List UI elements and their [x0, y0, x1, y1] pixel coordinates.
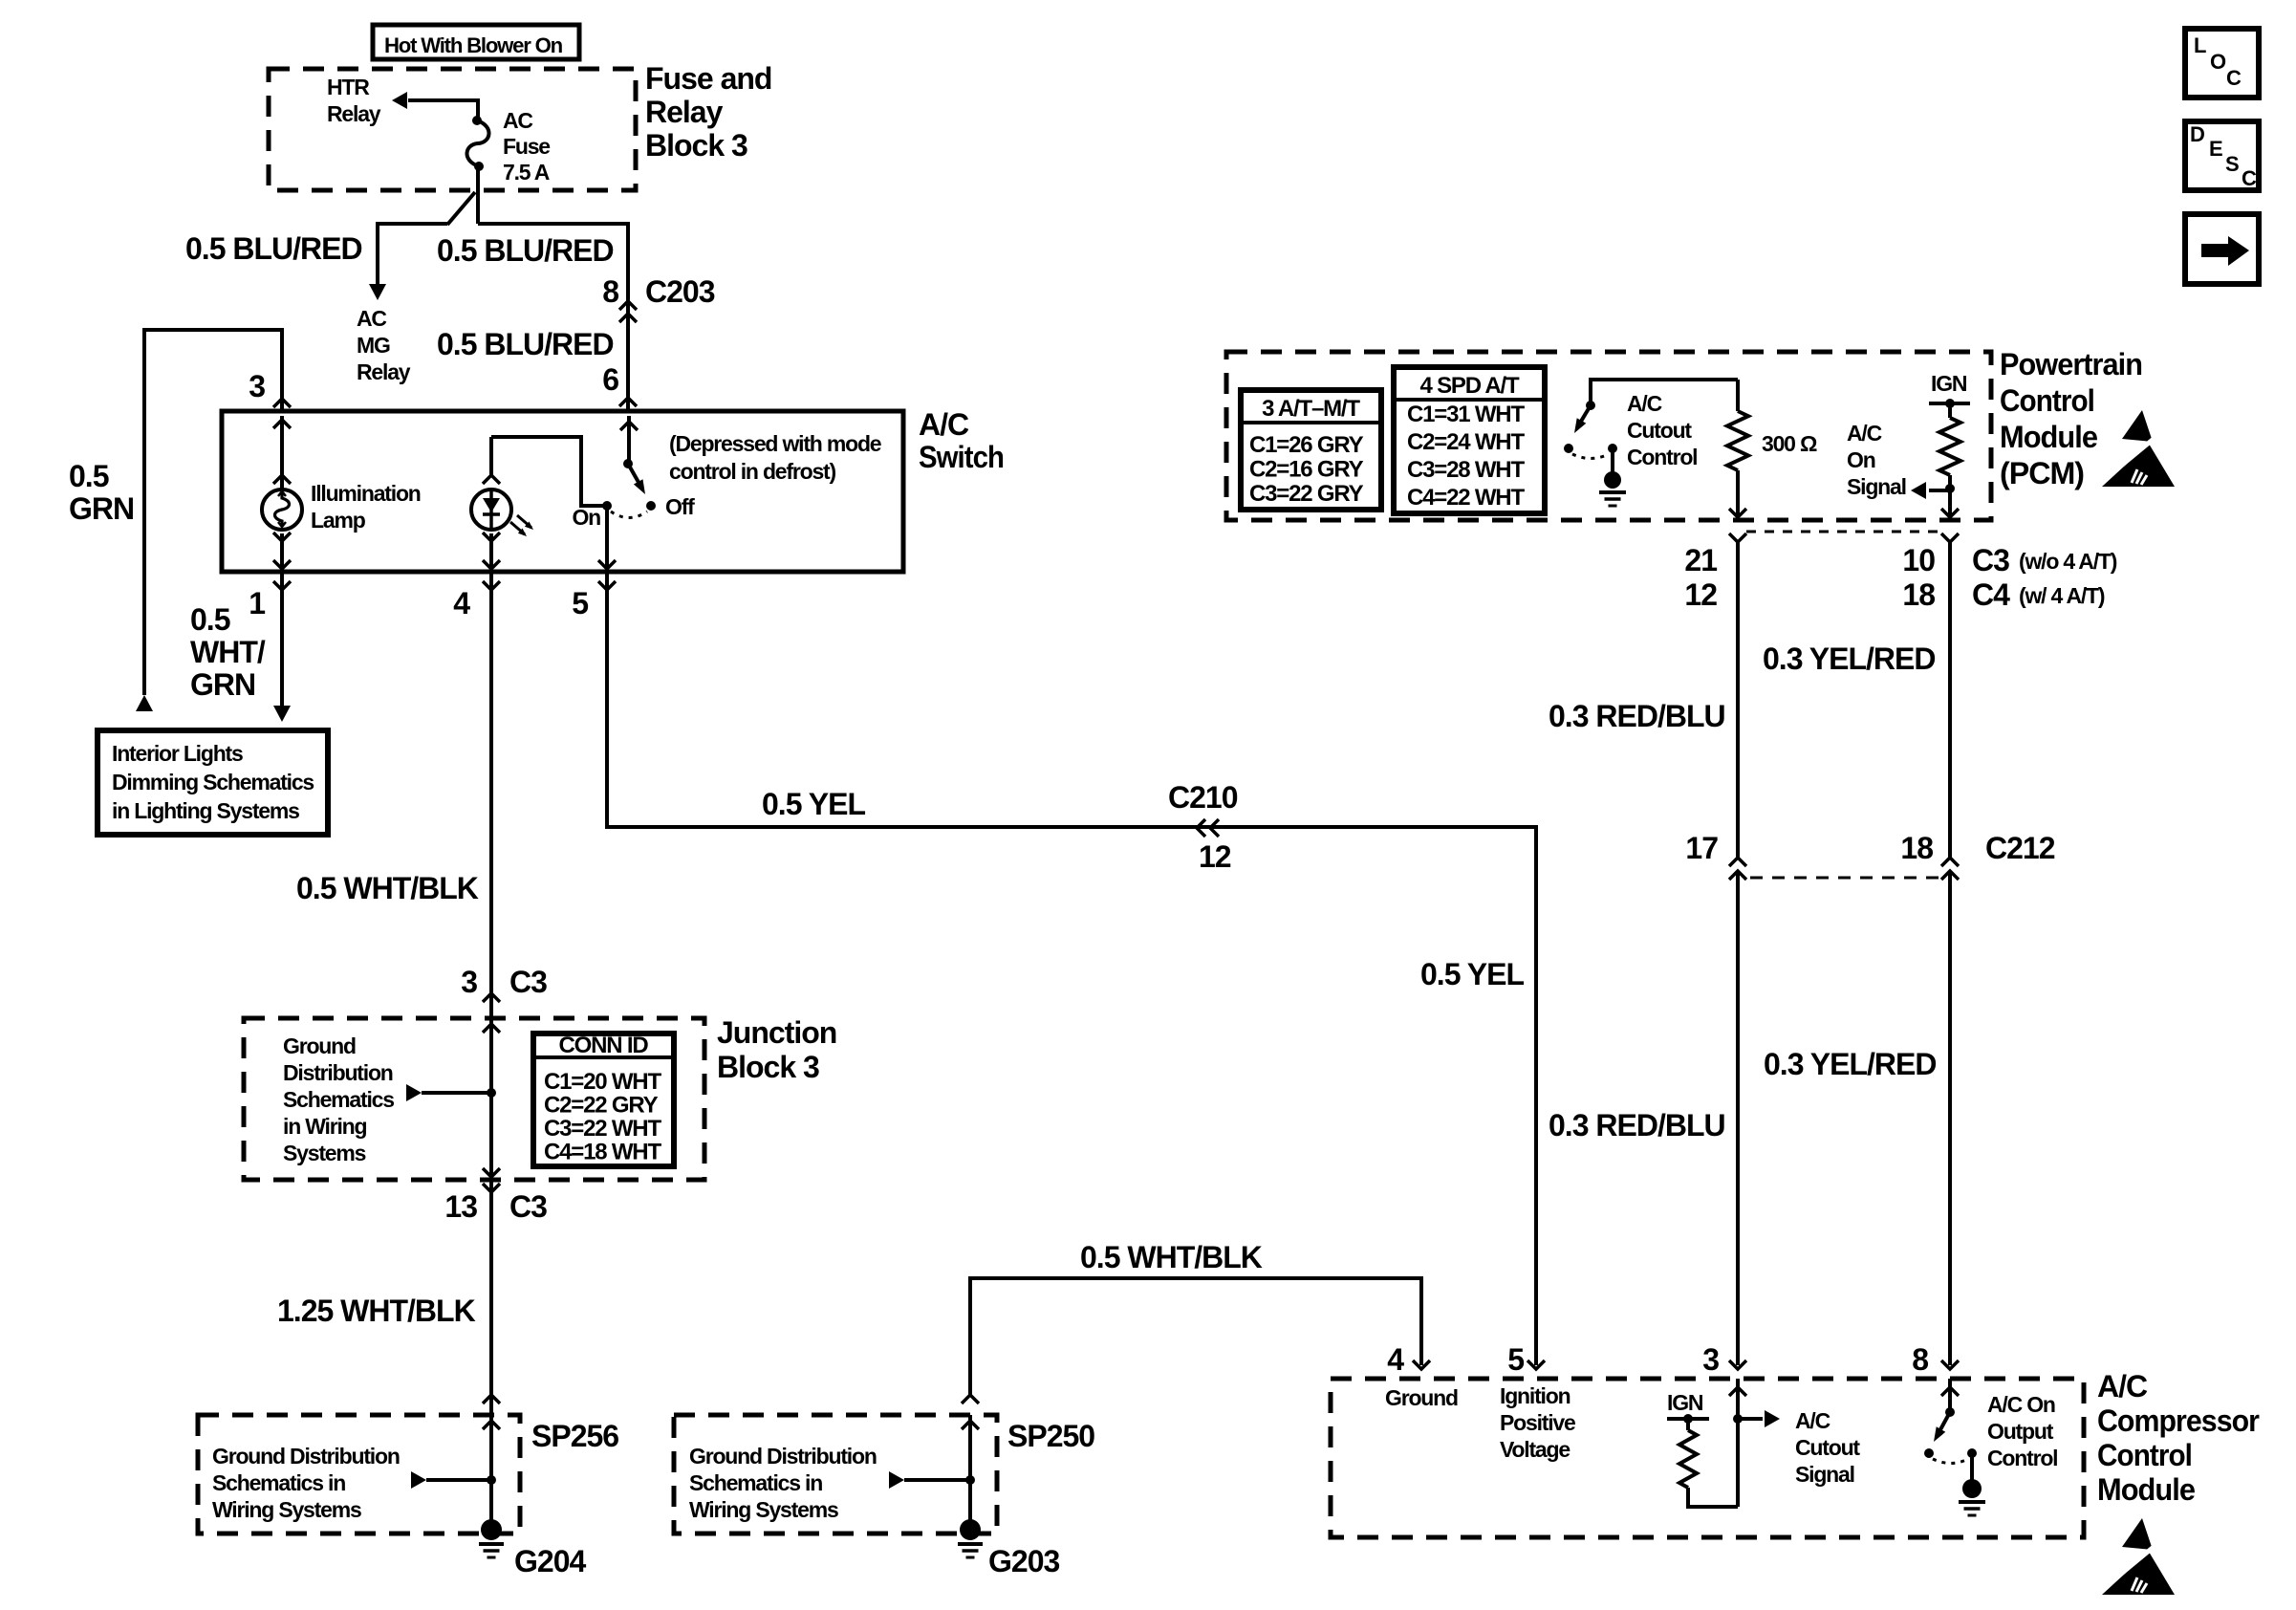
svg-text:C1=31 WHT: C1=31 WHT [1407, 402, 1525, 427]
pin 6 chevron [619, 398, 637, 406]
svg-text:3: 3 [461, 965, 477, 999]
svg-text:control in defrost): control in defrost) [669, 459, 836, 484]
svg-text:4: 4 [1387, 1342, 1404, 1377]
A/C cutout control switch S2 [1591, 380, 1738, 405]
svg-text:(w/ 4 A/T): (w/ 4 A/T) [2019, 583, 2105, 608]
svg-text:D: D [2190, 122, 2204, 146]
svg-text:C3=28 WHT: C3=28 WHT [1407, 457, 1525, 483]
pin 21 chevron [1729, 533, 1746, 542]
svg-text:21: 21 [1684, 543, 1717, 577]
resistor R2 PCM IGN [1939, 418, 1960, 475]
svg-text:in Wiring: in Wiring [283, 1114, 367, 1139]
svg-text:Cutout: Cutout [1795, 1435, 1860, 1460]
svg-text:(w/o 4 A/T): (w/o 4 A/T) [2019, 549, 2117, 574]
svg-text:(Depressed with mode: (Depressed with mode [669, 431, 881, 456]
svg-text:1: 1 [249, 586, 265, 620]
svg-text:Signal: Signal [1847, 474, 1906, 499]
svg-text:Ground Distribution: Ground Distribution [212, 1444, 400, 1469]
svg-text:On: On [572, 505, 600, 530]
ground G204 [481, 1519, 502, 1540]
wire left branch to AC MG Relay [378, 224, 447, 285]
svg-text:C2=24 WHT: C2=24 WHT [1407, 429, 1525, 455]
svg-text:E: E [2209, 137, 2222, 161]
HTR Relay arrow [392, 92, 407, 109]
svg-text:in Lighting Systems: in Lighting Systems [112, 798, 299, 823]
wire 0.3 YEL/RED lower [1948, 871, 1952, 1365]
arrow ref SP256 [411, 1471, 426, 1489]
svg-text:4 SPD A/T: 4 SPD A/T [1419, 373, 1520, 399]
ground inside PCM [1604, 471, 1621, 489]
svg-text:On: On [1847, 447, 1875, 472]
svg-text:Switch: Switch [919, 440, 1004, 474]
wire 0.5 YEL [607, 572, 1536, 1365]
svg-text:GRN: GRN [69, 491, 134, 526]
label box "Hot With Blower On" [373, 25, 579, 59]
table 3 A/T-M/T [1241, 390, 1381, 510]
svg-text:Systems: Systems [283, 1141, 366, 1165]
svg-text:18: 18 [1900, 831, 1933, 865]
svg-text:3: 3 [249, 369, 265, 403]
svg-text:Relay: Relay [327, 101, 381, 126]
junction C3 chevron [483, 993, 500, 1002]
svg-text:C1=26 GRY: C1=26 GRY [1249, 432, 1364, 458]
svg-text:Relay: Relay [645, 95, 724, 129]
svg-text:Fuse and: Fuse and [645, 61, 771, 96]
splice SP250 node [965, 1475, 975, 1485]
svg-text:7.5 A: 7.5 A [503, 160, 550, 185]
svg-text:A/C: A/C [2097, 1369, 2148, 1403]
svg-text:A/C: A/C [1847, 421, 1882, 446]
svg-text:Voltage: Voltage [1500, 1437, 1570, 1462]
A/C cutout signal circuit [1736, 1379, 1740, 1507]
svg-text:0.5 BLU/RED: 0.5 BLU/RED [437, 327, 614, 361]
svg-text:0.3 RED/BLU: 0.3 RED/BLU [1549, 699, 1725, 733]
svg-text:Interior Lights: Interior Lights [112, 741, 243, 766]
wire 1.25 WHT/BLK [489, 1180, 493, 1520]
switch pivot node [623, 459, 633, 468]
svg-text:C2=22 GRY: C2=22 GRY [544, 1093, 659, 1119]
svg-text:0.5 WHT/BLK: 0.5 WHT/BLK [296, 871, 479, 905]
svg-text:Distribution: Distribution [283, 1060, 393, 1085]
svg-text:Powertrain: Powertrain [2000, 347, 2142, 381]
svg-text:C4=18 WHT: C4=18 WHT [544, 1140, 661, 1165]
wire pin 5 inside box [605, 506, 609, 570]
arrow ref SP250 [889, 1471, 904, 1489]
splice SP256 chevron [483, 1395, 500, 1403]
switch Off contact [646, 501, 656, 511]
svg-text:Compressor: Compressor [2097, 1403, 2260, 1438]
A/C Switch box [222, 411, 903, 572]
table 4 SPD A/T [1394, 367, 1545, 513]
A/C Compressor Control Module dashed box [1331, 1379, 2084, 1537]
wire split diagonal [447, 192, 475, 225]
svg-text:C3=22 WHT: C3=22 WHT [544, 1116, 661, 1142]
svg-text:C: C [2226, 66, 2242, 90]
wire 0.5 WHT/BLK bottom run [970, 1278, 1421, 1396]
svg-text:IGN: IGN [1931, 371, 1967, 396]
resistor R1 300 ohm [1736, 380, 1740, 411]
LED indicator D1 [471, 490, 511, 530]
Interior Lights reference box [97, 730, 328, 835]
junction block node [487, 1088, 496, 1098]
svg-text:0.3 YEL/RED: 0.3 YEL/RED [1764, 1047, 1936, 1081]
svg-text:C4=22 WHT: C4=22 WHT [1407, 485, 1525, 511]
switch dashed arc [611, 511, 647, 518]
illumination lamp L1 [262, 490, 302, 530]
svg-text:IGN: IGN [1667, 1390, 1703, 1415]
svg-text:Control: Control [1987, 1446, 2057, 1470]
LED light arrows [510, 522, 525, 534]
wire right branch to C203 [478, 224, 628, 411]
svg-text:O: O [2210, 50, 2226, 74]
svg-text:G204: G204 [514, 1544, 586, 1578]
svg-text:4: 4 [453, 586, 470, 620]
svg-text:0.5: 0.5 [69, 459, 109, 493]
svg-text:Module: Module [2000, 420, 2097, 454]
switch S1 pin 6 wire [627, 416, 631, 462]
svg-text:Ground: Ground [1385, 1385, 1458, 1410]
ESD symbol PCM [2102, 410, 2175, 487]
svg-text:CONN ID: CONN ID [559, 1033, 649, 1058]
svg-text:C3: C3 [1972, 543, 2009, 577]
svg-text:C1=20 WHT: C1=20 WHT [544, 1069, 661, 1095]
svg-text:Relay: Relay [357, 359, 411, 384]
svg-text:12: 12 [1684, 577, 1717, 612]
chevron below LED [483, 533, 500, 541]
connector C210 chevrons [1197, 819, 1205, 837]
svg-text:Illumination: Illumination [311, 481, 421, 506]
svg-text:5: 5 [572, 586, 588, 620]
SP256 dashed box [198, 1415, 520, 1534]
wire HTR relay to fuse [408, 100, 478, 120]
svg-text:Control: Control [1627, 445, 1697, 469]
CONN ID table [533, 1033, 674, 1166]
svg-text:Control: Control [2097, 1438, 2192, 1472]
svg-text:AC: AC [357, 306, 386, 331]
pin 3 chevron [273, 399, 291, 407]
svg-text:Lamp: Lamp [311, 508, 366, 533]
arrow into interior lights reference [136, 695, 153, 711]
pin 4 chevron [483, 581, 500, 590]
svg-text:SP250: SP250 [1007, 1419, 1094, 1453]
chevron below lamp [273, 533, 291, 541]
svg-text:Ground Distribution: Ground Distribution [689, 1444, 877, 1469]
splice SP250 chevron [962, 1395, 979, 1403]
LED branch wire lower [489, 533, 493, 570]
DESC icon box [2185, 121, 2259, 190]
svg-text:Signal: Signal [1795, 1462, 1854, 1487]
svg-text:6: 6 [602, 362, 618, 397]
ground G203 [960, 1519, 981, 1540]
svg-text:Hot With Blower On: Hot With Blower On [384, 33, 563, 57]
svg-text:Block 3: Block 3 [717, 1050, 819, 1084]
ground inside compressor [1962, 1479, 1982, 1498]
svg-text:0.5: 0.5 [190, 602, 230, 637]
wire 0.3 YEL/RED upper [1948, 542, 1952, 858]
svg-text:Ignition: Ignition [1500, 1383, 1570, 1408]
pin 1 chevron [273, 581, 291, 590]
svg-text:0.5 BLU/RED: 0.5 BLU/RED [185, 231, 362, 266]
svg-text:0.5 WHT/BLK: 0.5 WHT/BLK [1080, 1240, 1263, 1274]
svg-text:SP256: SP256 [531, 1419, 618, 1453]
svg-text:Fuse: Fuse [503, 134, 550, 159]
svg-text:3: 3 [1702, 1342, 1719, 1377]
svg-text:Schematics in: Schematics in [212, 1470, 345, 1495]
svg-text:C210: C210 [1168, 780, 1238, 815]
svg-text:Schematics in: Schematics in [689, 1470, 822, 1495]
Junction Block 3 dashed box [244, 1018, 704, 1180]
svg-text:1.25 WHT/BLK: 1.25 WHT/BLK [277, 1294, 476, 1328]
svg-text:A/C: A/C [1795, 1408, 1830, 1433]
splice SP256 node [487, 1475, 496, 1485]
svg-text:Dimming Schematics: Dimming Schematics [112, 770, 314, 794]
switch On node [602, 501, 612, 511]
svg-text:0.3 YEL/RED: 0.3 YEL/RED [1763, 642, 1935, 676]
svg-text:Module: Module [2097, 1472, 2195, 1507]
svg-text:Cutout: Cutout [1627, 418, 1692, 443]
svg-text:Junction: Junction [717, 1015, 836, 1050]
svg-text:C: C [2242, 166, 2257, 190]
A/C on output control switch S3 [1948, 1379, 1952, 1410]
svg-text:Block 3: Block 3 [645, 128, 747, 163]
LOC icon box [2185, 29, 2259, 98]
illumination lamp branch wire upper [280, 416, 284, 490]
wire pin 1 down [280, 572, 284, 707]
svg-text:A/C: A/C [919, 407, 969, 442]
svg-text:HTR: HTR [327, 75, 370, 99]
svg-text:0.5 BLU/RED: 0.5 BLU/RED [437, 233, 614, 268]
SP250 dashed box [674, 1415, 997, 1534]
pin 10 chevron [1941, 533, 1959, 542]
chevron above LED [483, 475, 500, 484]
svg-text:AC: AC [503, 108, 532, 133]
wire fuse output down [476, 166, 480, 224]
arrow icon box [2185, 214, 2259, 284]
svg-text:Wiring Systems: Wiring Systems [689, 1497, 838, 1522]
svg-text:Positive: Positive [1500, 1410, 1575, 1435]
svg-text:Off: Off [665, 494, 695, 519]
fuse F1 AC Fuse 7.5 A [472, 116, 482, 125]
wire pin 3 to interior lights [144, 330, 282, 695]
illumination lamp branch wire lower [280, 533, 284, 570]
connector C3 dashed line [1746, 531, 1941, 533]
connector C212 dashed line [1750, 877, 1939, 880]
chevron below junction block [483, 1184, 500, 1192]
svg-text:12: 12 [1199, 839, 1231, 874]
Fuse and Relay Block 3 dashed box [269, 69, 636, 190]
svg-text:C3: C3 [509, 965, 547, 999]
svg-text:L: L [2194, 33, 2206, 57]
arrow to interior lights dimming [273, 706, 291, 722]
svg-text:Wiring Systems: Wiring Systems [212, 1497, 361, 1522]
svg-text:C203: C203 [645, 274, 715, 309]
svg-text:C2=16 GRY: C2=16 GRY [1249, 457, 1364, 483]
svg-text:Control: Control [2000, 383, 2094, 418]
svg-text:GRN: GRN [190, 667, 255, 702]
chevron above lamp [273, 475, 291, 484]
svg-text:C4: C4 [1972, 577, 2010, 612]
wire 0.5 WHT/BLK pin 4 down [489, 572, 493, 1018]
ESD symbol compressor [2102, 1518, 2175, 1595]
LED indicator wire to switch [491, 437, 604, 506]
pin 5 chevron [598, 581, 616, 590]
svg-text:S: S [2225, 152, 2239, 176]
svg-text:WHT/: WHT/ [190, 635, 266, 669]
svg-text:MG: MG [357, 333, 390, 358]
arrow to AC MG Relay [369, 284, 386, 300]
svg-text:C3=22 GRY: C3=22 GRY [1249, 481, 1364, 507]
svg-text:5: 5 [1507, 1342, 1524, 1377]
svg-text:Ground: Ground [283, 1033, 356, 1058]
svg-text:17: 17 [1685, 831, 1718, 865]
wire SP250 to ground [968, 1415, 972, 1522]
svg-text:0.3 RED/BLU: 0.3 RED/BLU [1549, 1108, 1725, 1142]
connector C203 chevrons [619, 301, 637, 310]
svg-text:Output: Output [1987, 1419, 2054, 1444]
svg-text:(PCM): (PCM) [2000, 456, 2084, 490]
svg-text:18: 18 [1902, 577, 1935, 612]
svg-text:G203: G203 [988, 1544, 1059, 1578]
svg-text:C212: C212 [1985, 831, 2055, 865]
svg-text:3 A/T–M/T: 3 A/T–M/T [1262, 396, 1360, 422]
svg-text:A/C On: A/C On [1987, 1392, 2055, 1417]
svg-text:13: 13 [444, 1189, 477, 1224]
wire inside junction block [489, 1018, 493, 1180]
svg-text:8: 8 [602, 274, 618, 309]
svg-text:Schematics: Schematics [283, 1087, 394, 1112]
svg-text:300 Ω: 300 Ω [1762, 431, 1817, 456]
svg-text:A/C: A/C [1627, 391, 1662, 416]
wire 0.3 RED/BLU lower [1736, 871, 1740, 1365]
svg-text:10: 10 [1902, 543, 1935, 577]
svg-text:0.5 YEL: 0.5 YEL [762, 787, 865, 821]
A/C On Signal node and arrow [1945, 484, 1955, 493]
arrow ground distribution ref [406, 1084, 422, 1101]
svg-text:0.5 YEL: 0.5 YEL [1420, 957, 1524, 991]
Powertrain Control Module dashed box [1226, 352, 1991, 520]
resistor R3 compressor [1679, 1430, 1697, 1488]
wire 0.3 RED/BLU upper [1736, 542, 1740, 858]
svg-text:C3: C3 [509, 1189, 547, 1224]
switch blade [628, 464, 640, 486]
svg-text:8: 8 [1912, 1342, 1928, 1377]
